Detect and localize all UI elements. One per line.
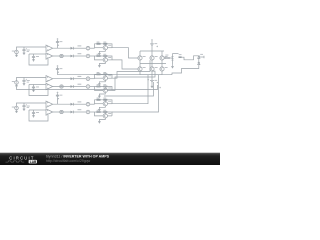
wire top rail block 1 xyxy=(17,47,47,50)
diode D7 xyxy=(179,54,182,58)
wire op-amp U3b input xyxy=(38,109,46,111)
wire to capacitor C3b xyxy=(33,110,35,112)
ground below C1a xyxy=(23,51,26,55)
voltage source V3 xyxy=(15,106,19,110)
schematic canvas xyxy=(0,0,220,165)
wire Q4 collector xyxy=(139,64,141,67)
label M3a xyxy=(78,101,82,102)
ground below C2a xyxy=(23,81,26,85)
wire T1 top xyxy=(173,53,179,55)
voltage source V2 xyxy=(15,81,19,85)
CircuitLab logo CIRCUIT xyxy=(9,156,34,161)
wire to capacitor C3a xyxy=(23,103,25,106)
source circle P3 xyxy=(60,110,63,113)
ground below V1 xyxy=(15,54,18,57)
transistor Q3a xyxy=(103,102,107,106)
label C3a xyxy=(27,106,30,108)
wire output stub xyxy=(199,56,204,59)
label M1b xyxy=(78,53,82,54)
wire driver box 2a xyxy=(95,74,113,78)
meter M1b xyxy=(86,54,90,58)
ground below C2b xyxy=(32,88,35,92)
wire op-amp out rail 3a xyxy=(53,103,71,105)
wire driver box 2b xyxy=(95,87,113,91)
label Q4 xyxy=(143,66,146,69)
plus mark FB2 xyxy=(159,87,161,89)
op-amp U1b xyxy=(46,53,53,59)
wire feedback box block 1 xyxy=(29,54,48,65)
resistor R1b2 xyxy=(103,54,107,57)
wire diode to meter 3b xyxy=(73,111,86,113)
resistor R1a2 xyxy=(103,42,107,45)
footer bar xyxy=(0,153,220,165)
wire Q4 emitter xyxy=(139,71,141,75)
power supply cross xyxy=(151,39,153,41)
meter M3a xyxy=(86,102,90,106)
diode D2a xyxy=(71,77,74,80)
op-amp U3b xyxy=(46,109,53,115)
wire to capacitor C1b xyxy=(33,54,35,56)
label V2 xyxy=(12,80,15,83)
svg-text:LAB: LAB xyxy=(30,160,37,164)
wire to diode column xyxy=(182,56,199,60)
transistor Q2 xyxy=(150,56,154,60)
transistor Q6 xyxy=(160,67,164,71)
wire driver out 2b xyxy=(107,89,112,91)
resistor R2b1 xyxy=(97,84,101,87)
wire op-amp out rail 2a xyxy=(53,78,71,80)
label Q3b xyxy=(108,112,111,115)
wire diode mid xyxy=(198,59,200,62)
wire driver emitter 1a xyxy=(99,50,105,52)
label C3b xyxy=(36,111,39,114)
wire meter to driver 3a xyxy=(90,103,95,105)
ground cluster xyxy=(151,84,154,88)
wire diode to meter 2a xyxy=(73,78,86,80)
wire driver base 3a xyxy=(95,103,104,105)
wire driver out 2a xyxy=(107,77,112,79)
diode D8 xyxy=(198,56,200,59)
resistor R1b1 xyxy=(97,54,101,57)
wire driver emitter 2b xyxy=(99,93,105,95)
wire driver out 1b xyxy=(107,59,112,61)
svg-text:http://circuitlab.com/c/29gqw: http://circuitlab.com/c/29gqw xyxy=(46,159,91,163)
wire R10 to T1 xyxy=(169,57,172,59)
op-amp U3a xyxy=(46,101,53,107)
label Q3a xyxy=(108,100,111,103)
label Q1 xyxy=(143,55,146,58)
ground below V2 xyxy=(15,84,18,87)
op-amp U2b xyxy=(46,83,53,89)
label out xyxy=(200,53,203,56)
capacitor C2b xyxy=(32,86,35,89)
ground T1 xyxy=(171,64,174,68)
resistor R3a2 xyxy=(103,98,107,101)
resistor R2a2 xyxy=(103,72,107,75)
resistor R3b2 xyxy=(103,110,107,113)
transistor Q2a xyxy=(103,76,107,80)
wire feedback FB3 xyxy=(104,82,154,96)
resistor R10 xyxy=(165,55,169,59)
label M3b xyxy=(78,109,82,110)
wire driver emitter 2a xyxy=(99,80,105,82)
plus mark battery a xyxy=(147,79,149,81)
wire route 2b xyxy=(112,71,155,90)
label C1a xyxy=(27,50,30,52)
voltage source V1 xyxy=(15,50,19,54)
footer title text xyxy=(46,155,110,159)
label C1b xyxy=(36,55,39,58)
capacitor C2a xyxy=(22,79,26,81)
wire route 1b xyxy=(112,60,138,69)
label C2b xyxy=(36,86,39,89)
meter M2b xyxy=(86,85,90,89)
wire to capacitor C2b xyxy=(33,85,35,87)
resistor R1a1 xyxy=(97,42,101,45)
wire mid rail block 3 xyxy=(29,109,38,111)
diode D2b xyxy=(71,85,74,88)
diode D9 xyxy=(198,62,200,65)
label Q2b xyxy=(108,87,111,90)
wire driver box 1a xyxy=(95,44,113,48)
wire diode to meter 1a xyxy=(73,47,86,49)
wire driver emitter 3b xyxy=(99,118,105,120)
wire to capacitor C1a xyxy=(23,47,25,50)
wire top rail block 3 xyxy=(17,103,47,106)
label Q3 xyxy=(165,55,168,58)
wire Q3 emitter xyxy=(161,60,163,63)
ground driver 3a xyxy=(98,108,101,111)
label Q1a xyxy=(108,44,111,47)
wire feedback FB2 xyxy=(17,85,158,90)
capacitor C1a xyxy=(22,48,26,50)
wire driver base tap 1b xyxy=(104,57,106,58)
wire driver base 1b xyxy=(95,56,104,60)
ground driver 3b xyxy=(98,121,101,124)
ground below C3a xyxy=(23,107,26,111)
source circle P1 xyxy=(60,54,63,57)
label Q2 xyxy=(155,55,158,58)
wire driver base 3b xyxy=(95,112,104,116)
wire drop Q1 xyxy=(139,51,141,56)
wire driver out 3a xyxy=(107,103,112,105)
capacitor C3a xyxy=(22,104,26,106)
wire driver base tap 1a xyxy=(104,44,106,45)
power branch P3 xyxy=(56,92,62,105)
source circle P2 xyxy=(60,85,63,88)
meter M3b xyxy=(86,110,90,114)
transistor Q3b xyxy=(103,114,107,118)
wire meter to driver 1b xyxy=(90,55,95,57)
label C2a xyxy=(27,80,30,82)
op-amp U1a xyxy=(46,45,53,51)
wire route 2a xyxy=(112,60,150,78)
label Q1b xyxy=(108,56,111,59)
op-amp U2a xyxy=(46,76,53,82)
transistor Q5 xyxy=(150,67,154,71)
wire to capacitor C2a xyxy=(23,78,25,81)
transformer T1 primary xyxy=(171,54,173,65)
wire drop Q2 xyxy=(151,51,153,56)
wire driver emitter 3a xyxy=(99,106,105,108)
plus mark bus xyxy=(156,46,158,48)
transistor Q1b xyxy=(103,58,107,62)
diode D1b xyxy=(71,55,74,58)
transistor Q2b xyxy=(103,88,107,92)
wire Q3 out xyxy=(163,57,166,59)
label Q2a xyxy=(108,74,111,77)
wire Q6 collector xyxy=(161,64,163,67)
wire driver box 3b xyxy=(95,112,113,116)
wire route 3a xyxy=(112,75,148,104)
wire driver base tap 3b xyxy=(104,113,106,114)
wire op-amp out rail 3b xyxy=(53,111,71,113)
capacitor C1b xyxy=(32,56,35,59)
wire driver base tap 2b xyxy=(104,87,106,88)
resistor R2a1 xyxy=(97,72,101,75)
transistor Q4 xyxy=(138,67,142,71)
ground driver 1b xyxy=(98,65,101,68)
power branch P2 xyxy=(56,65,62,75)
wire meter to driver 2b xyxy=(90,86,95,88)
wire Q6 emitter xyxy=(161,71,163,75)
ground below C3b xyxy=(32,114,35,118)
diode D1a xyxy=(71,47,74,50)
svg-text:blynn311 / INVERTER WITH OP AM: blynn311 / INVERTER WITH OP AMPS xyxy=(46,155,110,159)
wire op-amp out rail 1b xyxy=(53,55,71,57)
wire diode bottom loop xyxy=(172,65,199,74)
wire meter to driver 2a xyxy=(90,78,95,80)
wire driver base tap 3a xyxy=(104,100,106,101)
wire Q5 collector xyxy=(151,64,153,67)
wire drop Q3 xyxy=(161,51,163,56)
CircuitLab logo LAB box xyxy=(29,160,37,164)
wire feedback FB1 xyxy=(58,74,173,76)
ground driver 2b xyxy=(98,95,101,98)
label M1a xyxy=(78,45,82,46)
transistor Q3 xyxy=(160,56,164,60)
label V3 xyxy=(12,106,15,109)
wire driver base 2b xyxy=(95,87,104,91)
battery B1 xyxy=(150,41,157,51)
wire driver box 1b xyxy=(95,56,113,60)
wire Q1 emitter xyxy=(139,60,141,63)
meter M1a xyxy=(86,46,90,50)
wire battery V8 stem xyxy=(151,75,153,80)
transistor Q1 xyxy=(138,56,142,60)
CircuitLab logo waveform xyxy=(6,161,25,162)
label Q6 xyxy=(165,66,168,69)
wire top rail block 2 xyxy=(17,78,47,81)
battery V8 xyxy=(150,80,157,84)
ground below V3 xyxy=(15,110,18,113)
meter M2a xyxy=(86,77,90,81)
ground below C1b xyxy=(32,58,35,62)
capacitor C3b xyxy=(32,112,35,115)
wire Q2 emitter xyxy=(151,60,153,63)
wire diode to meter 2b xyxy=(73,86,86,88)
footer url text xyxy=(46,159,91,163)
wire diode to meter 1b xyxy=(73,55,86,57)
power branch P1 xyxy=(56,38,62,48)
wire op-amp out rail 1a xyxy=(53,47,71,49)
wire driver box 3a xyxy=(95,100,113,104)
diode D3a xyxy=(71,103,74,106)
wire bus top xyxy=(140,50,164,52)
wire mid rail block 1 xyxy=(29,53,38,55)
wire feedback box block 2 xyxy=(29,85,48,96)
resistor R3a1 xyxy=(97,98,101,101)
ground driver 1a xyxy=(98,52,101,55)
wire Q5 emitter xyxy=(151,71,153,75)
resistor R2b2 xyxy=(103,84,107,87)
wire driver out 1a xyxy=(107,47,112,49)
wire meter to driver 3b xyxy=(90,111,95,113)
label M2b xyxy=(78,84,82,85)
wire meter to driver 1a xyxy=(90,47,95,49)
label V1 xyxy=(12,50,15,53)
plus mark battery b xyxy=(157,82,159,84)
wire route 3b xyxy=(112,75,159,112)
wire mid bus xyxy=(140,63,166,65)
wire diode to meter 3a xyxy=(73,103,86,105)
wire route 1a xyxy=(112,48,138,58)
label M2a xyxy=(78,76,82,77)
ground driver 2a xyxy=(98,83,101,86)
transistor Q1a xyxy=(103,46,107,50)
diode D3b xyxy=(71,111,74,114)
wire op-amp U2b input xyxy=(38,84,46,86)
wire bus bottom xyxy=(140,74,162,76)
wire driver base 1a xyxy=(95,47,104,49)
label Q5 xyxy=(155,66,158,69)
wire driver base 2a xyxy=(95,77,104,79)
wire driver out 3b xyxy=(107,115,112,117)
wire feedback box block 3 xyxy=(29,110,48,121)
wire driver emitter 1b xyxy=(99,62,105,64)
wire op-amp U1b input xyxy=(38,53,46,55)
wire driver base tap 2a xyxy=(104,75,106,76)
wire op-amp out rail 2b xyxy=(53,86,71,88)
resistor R3b1 xyxy=(97,110,101,113)
wire mid rail block 2 xyxy=(29,84,38,86)
